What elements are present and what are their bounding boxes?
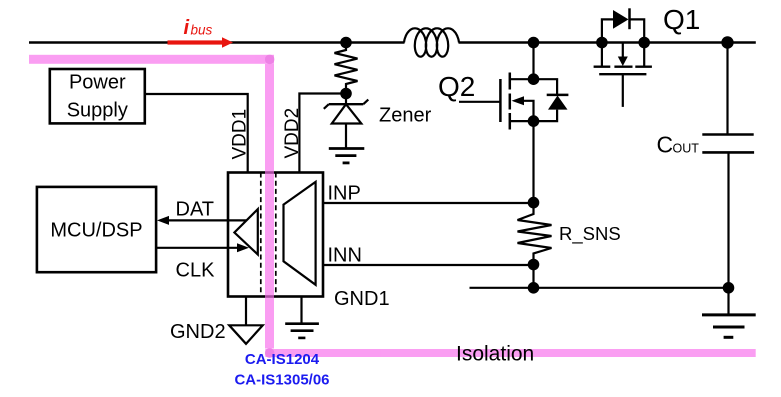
svg-text:MCU/DSP: MCU/DSP [50,220,142,242]
svg-text:Supply: Supply [67,100,128,122]
svg-text:VDD2: VDD2 [282,108,303,159]
svg-text:Power: Power [69,72,126,94]
svg-text:DAT: DAT [176,199,215,221]
svg-text:GND1: GND1 [334,288,390,310]
svg-text:Q1: Q1 [663,4,700,35]
svg-text:Zener: Zener [379,105,432,127]
svg-text:Isolation: Isolation [456,343,534,366]
svg-text:INP: INP [328,183,361,205]
svg-text:CA-IS1305/06: CA-IS1305/06 [234,372,329,389]
svg-text:OUT: OUT [673,142,700,156]
svg-text:Q2: Q2 [438,71,475,102]
svg-text:C: C [657,132,674,158]
svg-text:INN: INN [328,245,362,267]
svg-text:CLK: CLK [176,260,216,282]
svg-text:CA-IS1204: CA-IS1204 [245,351,320,368]
svg-text:i: i [184,17,190,39]
svg-text:GND2: GND2 [170,321,226,343]
svg-text:VDD1: VDD1 [230,109,251,160]
svg-text:bus: bus [191,23,213,38]
svg-text:R_SNS: R_SNS [559,223,621,245]
